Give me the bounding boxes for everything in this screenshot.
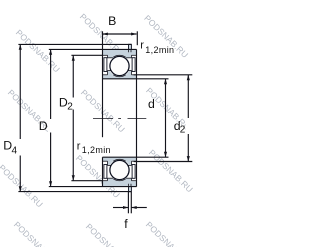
svg-text:4: 4 (12, 146, 18, 157)
svg-text:f: f (124, 217, 128, 231)
svg-text:d: d (148, 97, 155, 111)
svg-text:r: r (77, 140, 81, 152)
svg-text:r: r (140, 40, 144, 52)
svg-text:D: D (39, 119, 48, 133)
svg-text:2: 2 (67, 102, 73, 113)
svg-text:1,2min: 1,2min (145, 45, 174, 55)
svg-text:B: B (108, 14, 116, 28)
svg-text:1,2min: 1,2min (82, 145, 111, 155)
svg-text:2: 2 (180, 124, 186, 135)
